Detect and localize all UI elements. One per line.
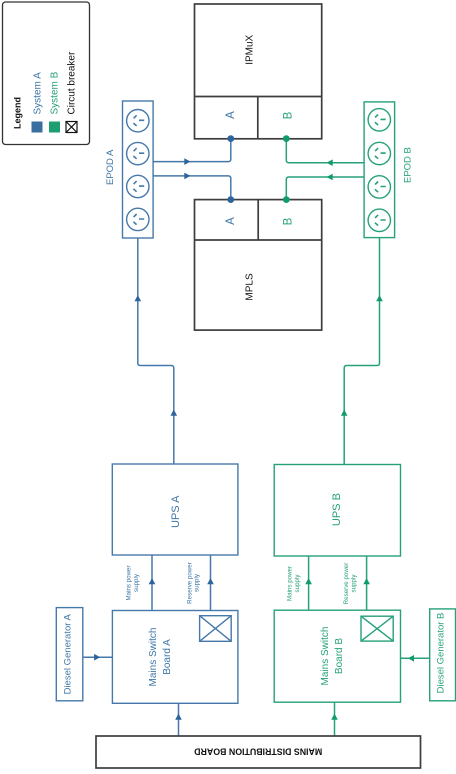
wire MDB to MSB B (334, 702, 336, 736)
svg-text:Board A: Board A (162, 639, 173, 675)
svg-text:Mains Switch: Mains Switch (320, 627, 331, 686)
arrow mains power supply A (149, 578, 156, 584)
legend label "System A" (33, 72, 44, 115)
svg-text:Legend: Legend (13, 97, 23, 129)
label mains power supply A (125, 565, 140, 600)
equipment box IPMuX (195, 4, 322, 139)
arrow on wire UPS B to EPOD B (upper) (376, 295, 383, 301)
box MAINS DISTRIBUTION BOARD (96, 736, 421, 768)
label Diesel Generator B (436, 613, 447, 694)
node IPMuX B (283, 135, 290, 142)
wire MSB A reserve power supply to UPS A (210, 555, 212, 611)
arrow on wire EPOD A to MPLS A (184, 173, 190, 180)
legend label "System B" (50, 71, 61, 114)
wire Diesel Generator A to MSB A (83, 656, 113, 658)
arrow mains power supply B (305, 578, 312, 584)
legend box (3, 2, 90, 145)
svg-text:supply: supply (133, 573, 140, 592)
arrow Diesel Generator A to MSB A (94, 654, 100, 661)
box UPS A (112, 464, 238, 555)
arrow on wire UPS A to EPOD A (lower) (171, 410, 178, 416)
label reserve power supply A (187, 562, 201, 604)
label IPMuX port A (225, 111, 237, 119)
svg-text:System B: System B (50, 71, 61, 114)
svg-text:Diesel Generator B: Diesel Generator B (436, 613, 447, 694)
legend icon circuit breaker (66, 122, 77, 133)
svg-text:UPS A: UPS A (170, 495, 182, 528)
svg-text:Reserve power: Reserve power (343, 563, 350, 605)
svg-text:System A: System A (33, 72, 44, 115)
wire UPS A to EPOD A (138, 238, 174, 464)
socket A2 (127, 142, 149, 164)
wire EPOD A to MPLS A (153, 176, 231, 200)
wire EPOD A to IPMuX A (153, 139, 231, 162)
label UPS A (170, 495, 182, 528)
arrow on wire EPOD B to IPMuX B (327, 159, 333, 166)
svg-text:UPS B: UPS B (331, 493, 343, 526)
socket A4 (127, 208, 149, 230)
node MPLS A (227, 196, 234, 203)
svg-text:Mains Switch: Mains Switch (148, 628, 159, 687)
box Mains Switch Board A (112, 611, 237, 704)
power strip EPOD A (123, 101, 154, 238)
label EPOD B (402, 147, 413, 183)
wire EPOD B to IPMuX B (286, 139, 364, 163)
wire MDB to MSB A (178, 703, 180, 736)
circuit breaker in MSB B (361, 616, 393, 641)
wire MSB A mains power supply to UPS A (151, 555, 153, 611)
svg-text:MAINS DISTRIBUTION BOARD: MAINS DISTRIBUTION BOARD (194, 747, 322, 757)
svg-text:Mains power: Mains power (125, 565, 132, 600)
label EPOD A (105, 149, 116, 185)
svg-text:IPMuX: IPMuX (245, 34, 256, 64)
equipment box MPLS (195, 200, 322, 331)
svg-text:EPOD B: EPOD B (402, 147, 413, 183)
svg-text:supply: supply (351, 574, 358, 593)
svg-text:supply: supply (294, 574, 301, 593)
label MPLS (245, 273, 256, 301)
label IPMuX port B (283, 111, 295, 119)
svg-text:A: A (225, 111, 237, 119)
arrow MDB to MSB B (331, 714, 338, 720)
wire MSB B mains power supply to UPS B (308, 556, 310, 610)
svg-text:Diesel Generator A: Diesel Generator A (62, 614, 73, 695)
box Mains Switch Board B (274, 610, 400, 702)
socket A3 (127, 175, 149, 197)
label IPMuX (245, 34, 256, 64)
box UPS B (274, 465, 400, 557)
label Diesel Generator A (62, 614, 73, 695)
socket B2 (368, 142, 390, 164)
label MAINS DISTRIBUTION BOARD (194, 747, 322, 757)
legend swatch System A (32, 122, 43, 133)
label Mains Switch Board B (320, 627, 345, 686)
arrow on wire EPOD A to IPMuX A (184, 158, 190, 165)
label MPLS port B (283, 217, 295, 225)
svg-text:A: A (225, 217, 237, 225)
wire UPS B to EPOD B (344, 238, 379, 465)
svg-text:MPLS: MPLS (245, 273, 256, 301)
box Diesel Generator A (56, 608, 83, 701)
power strip EPOD B (364, 102, 395, 238)
legend title "Legend" (13, 97, 23, 129)
arrow on wire EPOD B to MPLS B (327, 174, 333, 181)
svg-text:Circut breaker: Circut breaker (67, 51, 78, 114)
circuit breaker in MSB A (200, 616, 232, 642)
svg-text:B: B (283, 111, 295, 119)
svg-text:Mains power: Mains power (287, 566, 294, 601)
svg-text:EPOD A: EPOD A (105, 149, 116, 185)
label Mains Switch Board A (148, 628, 173, 687)
svg-text:supply: supply (194, 573, 201, 592)
svg-text:Board B: Board B (334, 638, 345, 674)
socket B1 (368, 109, 390, 131)
svg-text:Reserve power: Reserve power (187, 562, 194, 604)
legend label "Circut breaker" (67, 51, 78, 114)
label UPS B (331, 493, 343, 526)
arrow reserve power supply B (363, 578, 370, 584)
node MPLS B (283, 196, 290, 203)
label mains power supply B (287, 566, 302, 601)
socket B3 (368, 176, 390, 198)
socket A1 (127, 110, 149, 132)
wire EPOD B to MPLS B (286, 177, 364, 200)
arrow Diesel Generator B to MSB B (408, 655, 414, 662)
label MPLS port A (225, 217, 237, 225)
legend swatch System B (49, 122, 60, 133)
box Diesel Generator B (430, 609, 456, 701)
arrow on wire UPS A to EPOD A (upper) (135, 295, 142, 301)
node IPMuX A (227, 135, 234, 142)
svg-text:B: B (283, 217, 295, 225)
wire MSB B reserve power supply to UPS B (366, 556, 368, 610)
socket B4 (368, 209, 390, 231)
arrow reserve power supply A (207, 578, 214, 584)
arrow MDB to MSB A (175, 714, 182, 720)
wire Diesel Generator B to MSB B (401, 657, 430, 659)
arrow on wire UPS B to EPOD B (lower) (341, 410, 348, 416)
label reserve power supply B (343, 563, 358, 605)
